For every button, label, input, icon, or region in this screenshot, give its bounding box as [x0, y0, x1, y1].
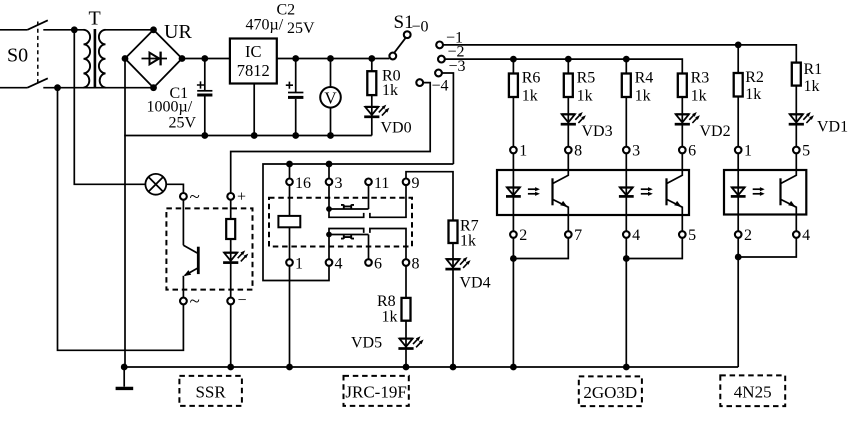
wire relay drive line [263, 164, 453, 281]
svg-text:8: 8 [412, 256, 420, 273]
node relay line pin16 [286, 161, 293, 168]
node contact arm pivot (lower) [326, 232, 332, 238]
SSR terminal - (bottom) [227, 298, 234, 305]
wire VD4 to bus [452, 269, 454, 367]
wire voltmeter top lead [330, 59, 332, 88]
svg-text:6: 6 [688, 143, 696, 160]
svg-text:V: V [324, 88, 337, 107]
capacitor C2 plus sign [286, 82, 293, 89]
wire R2 top lead [737, 45, 739, 73]
pin 8 terminal (top, x=568.3) [565, 147, 572, 154]
wire top AC down to lamp [74, 30, 145, 185]
wire R0 top lead [371, 59, 373, 72]
pin 6 terminal (top, x=682.3) [679, 147, 686, 154]
wire pin8 to R8 [405, 266, 407, 298]
switch S0 bottom blade [27, 78, 47, 87]
capacitor C2 top plate [288, 92, 303, 94]
pin 4 terminal (bottom, x=796.3) [793, 231, 800, 238]
svg-text:R5: R5 [577, 70, 596, 87]
SSR transistor emitter lead [185, 268, 199, 276]
wire SSR LED to - terminal [230, 263, 232, 298]
relay contact arm (upper) [329, 208, 369, 210]
wire line 3 to relay contacts [442, 73, 453, 164]
wire R0 to VD0 [371, 95, 373, 106]
SSR terminal ~ (bottom) [180, 298, 187, 305]
fixed contact right (lower) [370, 229, 406, 260]
node R6 top [510, 56, 517, 63]
LED VD0 [371, 106, 373, 117]
pin 1 terminal (top, x=513.4) [510, 147, 517, 154]
transformer T primary winding [84, 30, 91, 88]
svg-text:7812: 7812 [237, 61, 270, 80]
capacitor C2 bottom plate [288, 96, 303, 99]
label box SSR [179, 376, 242, 406]
node ground corner [121, 364, 128, 371]
switch S1 contact 3 [435, 70, 442, 77]
switch S1 blade [394, 38, 405, 53]
node pin2/pin7 junction [510, 255, 517, 262]
resistor R3 [678, 74, 687, 98]
SSR terminal ~ (top) [180, 193, 187, 200]
wire IC ground pin [253, 84, 255, 136]
switch S0 mechanical link (dashed) [37, 22, 39, 85]
node 2GO3D pin4 bus junction [623, 364, 630, 371]
svg-text:R4: R4 [635, 70, 654, 87]
LED VD3 [567, 113, 569, 124]
wire S0 bottom to transformer and bridge AC node [43, 87, 153, 89]
relay pin 8 terminal (bottom) [403, 259, 410, 266]
label box 4N25 [720, 375, 785, 406]
node SSR - bus junction [227, 364, 234, 371]
transformer T core [94, 29, 97, 88]
svg-text:1: 1 [295, 256, 303, 273]
relay coil [278, 216, 300, 227]
wire lamp to SSR ~ terminal [166, 184, 183, 193]
svg-text:+: + [237, 189, 246, 206]
svg-text:R6: R6 [522, 70, 541, 87]
relay pin 9 terminal [403, 179, 410, 186]
LED VD1 [795, 113, 797, 124]
node C2 bottom [292, 132, 299, 139]
wire SSR + to resistor [230, 200, 232, 219]
svg-text:1: 1 [744, 143, 752, 160]
node bridge right vertex [179, 55, 186, 62]
wire line 4 to SSR [231, 83, 431, 193]
wire pin7 bend to pin2 [513, 238, 568, 259]
bridge UR internal diode lead [142, 58, 168, 60]
wire line 1 [443, 45, 796, 63]
svg-text:4: 4 [802, 227, 810, 244]
wire pivot to fixed contact (lower) [329, 229, 364, 235]
node IC ground [251, 132, 258, 139]
svg-text:1k: 1k [522, 88, 538, 105]
pin 5 terminal (top, x=796.3) [793, 147, 800, 154]
bridge UR diode triangle [150, 53, 160, 65]
SSR transistor emitter arrow [184, 270, 192, 276]
ground symbol [116, 387, 134, 390]
pin 2 terminal (bottom, x=513.4) [510, 231, 517, 238]
contact symbol (upper) [341, 205, 354, 209]
svg-text:1k: 1k [577, 88, 593, 105]
resistor R4 [622, 74, 631, 98]
opto U2b light arrows [641, 188, 649, 190]
wire R2 to 4N25 pin1 [737, 97, 739, 147]
resistor R7 [449, 221, 458, 244]
node 4N25 pin2/pin4 junction [735, 254, 742, 261]
svg-text:1k: 1k [460, 233, 476, 250]
svg-text:2: 2 [519, 227, 527, 244]
node VD5 bus junction [403, 364, 410, 371]
svg-text:5: 5 [688, 227, 696, 244]
opto U2b phototransistor [665, 178, 667, 205]
resistor R5 [564, 74, 573, 98]
svg-text:25V: 25V [287, 20, 315, 37]
svg-text:VD4: VD4 [460, 275, 491, 292]
svg-text:1k: 1k [804, 78, 820, 95]
node C1 top [201, 55, 208, 62]
wire VD3 to pin8 [567, 124, 569, 147]
svg-text:4: 4 [632, 227, 640, 244]
resistor R1 [792, 63, 801, 86]
wire secondary top to bridge [106, 29, 154, 31]
svg-text:7: 7 [574, 227, 582, 244]
SSR box (dashed) [166, 208, 252, 289]
relay JRC-19F box (dashed) [269, 198, 412, 247]
resistor R0 [367, 71, 376, 95]
svg-text:1: 1 [519, 143, 527, 160]
svg-text:VD1: VD1 [817, 119, 848, 136]
voltmeter V body [320, 87, 341, 108]
node voltmeter bottom [327, 132, 334, 139]
svg-text:1000µ/: 1000µ/ [147, 99, 193, 116]
svg-text:1k: 1k [382, 82, 398, 99]
node VD4 bus junction [450, 364, 457, 371]
resistor R2 [734, 73, 743, 97]
wire pin16 to coil [289, 185, 291, 216]
wire pin4 to contact arm (lower) [328, 235, 330, 260]
label box JRC-19F [344, 376, 409, 406]
svg-text:25V: 25V [169, 115, 197, 132]
switch S0 bottom pole wire [0, 87, 27, 89]
wire relay pin9 to R7 [406, 172, 453, 221]
capacitor C1 plus sign [197, 81, 204, 88]
wire SSR resistor to LED [230, 239, 232, 252]
relay pin 1 terminal (bottom) [286, 259, 293, 266]
svg-text:R8: R8 [377, 293, 396, 310]
switch S1 contact 2 [438, 56, 445, 63]
wire +V rail bridge to IC [182, 58, 230, 60]
relay pin 6 terminal (bottom) [365, 259, 372, 266]
wire arm to pin11 [368, 185, 370, 209]
wire pin2 of 4N25 to bus [737, 238, 739, 367]
node relay line pin3 [326, 161, 333, 168]
svg-text:JRC-19F: JRC-19F [345, 383, 406, 402]
svg-text:2: 2 [744, 227, 752, 244]
LED VD4 [452, 258, 454, 269]
SSR resistor [226, 219, 235, 239]
node bridge left vertex [122, 55, 129, 62]
lamp HL body [145, 174, 166, 195]
LED VD2 [681, 113, 683, 124]
ground bus [124, 366, 738, 368]
capacitor C1 bottom plate [197, 94, 212, 97]
wire S0 top to transformer [43, 29, 83, 31]
relay contact arm (lower) [329, 234, 369, 236]
svg-text:R1: R1 [804, 61, 823, 78]
svg-text:~: ~ [190, 187, 200, 208]
wire VD1 to pin5 [795, 124, 797, 147]
lamp HL cross [148, 177, 163, 192]
node C1 bottom [201, 132, 208, 139]
node pin1 bus junction [286, 364, 293, 371]
switch S0 top blade [27, 20, 47, 30]
svg-text:9: 9 [412, 175, 420, 192]
svg-text:R3: R3 [691, 70, 710, 87]
svg-text:R2: R2 [745, 69, 764, 86]
pin 5 terminal (bottom, x=682.3) [679, 231, 686, 238]
svg-text:VD5: VD5 [351, 335, 382, 352]
svg-text:1k: 1k [745, 86, 761, 103]
svg-text:SSR: SSR [195, 383, 226, 402]
SSR LED [230, 252, 232, 263]
wire SSR - terminal to bus [230, 304, 232, 367]
svg-text:VD3: VD3 [582, 123, 613, 140]
node 2GO3D pin2 bus junction [510, 364, 517, 371]
pin 1 terminal (top, x=738.2) [735, 147, 742, 154]
SSR transistor collector lead [183, 245, 197, 253]
relay pin 11 terminal [365, 179, 372, 186]
resistor R8 [402, 298, 411, 321]
wire pin16 from relay line [289, 164, 291, 179]
fixed contact right (upper) [370, 185, 406, 217]
bridge rectifier UR body [125, 30, 182, 88]
wire voltmeter bottom lead [330, 108, 332, 136]
node contact arm pivot (upper) [326, 206, 332, 212]
svg-text:4: 4 [335, 256, 343, 273]
svg-text:IC: IC [245, 42, 262, 61]
wire R7 to VD4 [452, 243, 454, 258]
wire VD5 to bus [405, 349, 407, 368]
wire coil to pin1 [289, 227, 291, 259]
opto U3 light arrows [753, 188, 761, 190]
svg-text:3: 3 [335, 175, 343, 192]
SSR transistor emitter wire [182, 276, 184, 298]
svg-text:5: 5 [802, 143, 810, 160]
wire pin2 of 2GO3D to bus [512, 238, 514, 367]
opto U3 phototransistor [779, 178, 781, 205]
node voltmeter top [327, 55, 334, 62]
wire line 2 [445, 59, 682, 73]
wire pivot to fixed contact (upper) [329, 209, 364, 217]
SSR triac collector wire [182, 200, 184, 246]
switch S1 contact 0 [404, 31, 411, 38]
svg-text:1k: 1k [382, 309, 398, 326]
relay pin 16 terminal [286, 179, 293, 186]
node pin4/pin5 junction [623, 255, 630, 262]
node bridge bottom vertex [150, 84, 157, 91]
ground stub [123, 367, 125, 387]
svg-text:VD2: VD2 [700, 123, 731, 140]
label box 2GO3D [579, 376, 642, 406]
wire R8 to VD5 [405, 321, 407, 338]
regulator IC 7812 box [230, 39, 277, 84]
opto U2a light arrows [528, 188, 536, 190]
wire C1 bottom lead [204, 97, 206, 136]
svg-text:1k: 1k [635, 88, 651, 105]
svg-text:4N25: 4N25 [734, 383, 772, 402]
svg-text:2GO3D: 2GO3D [583, 383, 637, 402]
pin 2 terminal (bottom, x=738.2) [735, 231, 742, 238]
wire C2 bottom lead [295, 99, 297, 136]
svg-text:−: − [238, 292, 247, 309]
svg-text:T: T [89, 8, 101, 30]
LED VD5 [405, 338, 407, 349]
wire R6 top lead [512, 59, 514, 73]
wire R3 to VD2 [681, 97, 683, 113]
node R0 top [368, 55, 375, 62]
bridge UR diode bar [159, 52, 161, 66]
svg-text:S0: S0 [7, 45, 28, 67]
opto U2a LED [512, 153, 514, 231]
switch S1 contact 1 [436, 42, 443, 49]
optocoupler 4N25 box [724, 170, 806, 215]
wire 0V rail [124, 135, 372, 137]
switch S1 contact 4 [416, 79, 423, 86]
opto U2a phototransistor [551, 178, 553, 205]
transformer T secondary winding [99, 30, 106, 88]
wire VD2 to pin6 [681, 124, 683, 147]
wire C2 top lead [295, 59, 297, 93]
opto U2b LED [625, 153, 627, 231]
relay pin 4 terminal (bottom) [326, 259, 333, 266]
svg-text:8: 8 [574, 143, 582, 160]
svg-text:−4: −4 [432, 78, 449, 95]
wire pin3 to contact arm [328, 185, 330, 209]
wire pin4 of 2GO3D to bus [625, 238, 627, 367]
relay pin 3 terminal [326, 179, 333, 186]
node top AC junction [71, 26, 78, 33]
wire arm to pin6 [368, 235, 370, 260]
SSR terminal + (top) [227, 193, 234, 200]
wire R5 to VD3 [567, 97, 569, 113]
svg-text:6: 6 [374, 256, 382, 273]
svg-text:11: 11 [374, 175, 389, 192]
svg-text:3: 3 [632, 143, 640, 160]
wire pin1 to bus [289, 266, 291, 367]
node bottom AC junction [54, 84, 61, 91]
wire R1 to VD1 [795, 86, 797, 114]
node R2 top [735, 42, 742, 49]
pin 4 terminal (bottom, x=626.3) [623, 231, 630, 238]
wire R4 top lead [625, 59, 627, 73]
wire pin5 bend to pin4 [626, 238, 682, 259]
svg-text:VD0: VD0 [381, 120, 412, 137]
contact symbol (lower) [341, 235, 354, 239]
svg-text:1k: 1k [691, 88, 707, 105]
switch S1 pole [389, 53, 396, 60]
SSR transistor bar [197, 247, 200, 274]
wire pin4 bend to pin2 (4N25) [738, 238, 796, 257]
wire pin3 from relay line [328, 164, 330, 179]
wire R4 to pin3 [625, 97, 627, 147]
pin 7 terminal (bottom, x=568.3) [565, 231, 572, 238]
node bridge top vertex [150, 26, 157, 33]
svg-text:−0: −0 [412, 19, 429, 36]
node C2 top [292, 55, 299, 62]
wire +V rail IC to S1 pole [277, 58, 390, 60]
pin 3 terminal (top, x=626.3) [623, 147, 630, 154]
capacitor C1 top plate [197, 90, 212, 92]
wire R6 to pin1 [512, 97, 514, 147]
opto U3 LED [737, 153, 739, 231]
node R5 top [565, 56, 572, 63]
node R4 top [623, 56, 630, 63]
wire C1 top lead [204, 59, 206, 91]
wire bridge left vertex down to ground bus [124, 59, 126, 368]
optocoupler 2GO3D box [497, 170, 689, 215]
wire R5 top lead [567, 59, 569, 73]
svg-text:470µ/: 470µ/ [246, 17, 284, 34]
resistor R6 [509, 74, 518, 98]
wire bottom AC down to SSR ~ terminal [58, 88, 184, 351]
wire VD0 to 0V rail [371, 117, 373, 136]
svg-text:UR: UR [164, 21, 192, 43]
svg-text:16: 16 [295, 175, 311, 192]
svg-text:~: ~ [190, 291, 200, 312]
switch S0 top pole wire [0, 29, 27, 31]
